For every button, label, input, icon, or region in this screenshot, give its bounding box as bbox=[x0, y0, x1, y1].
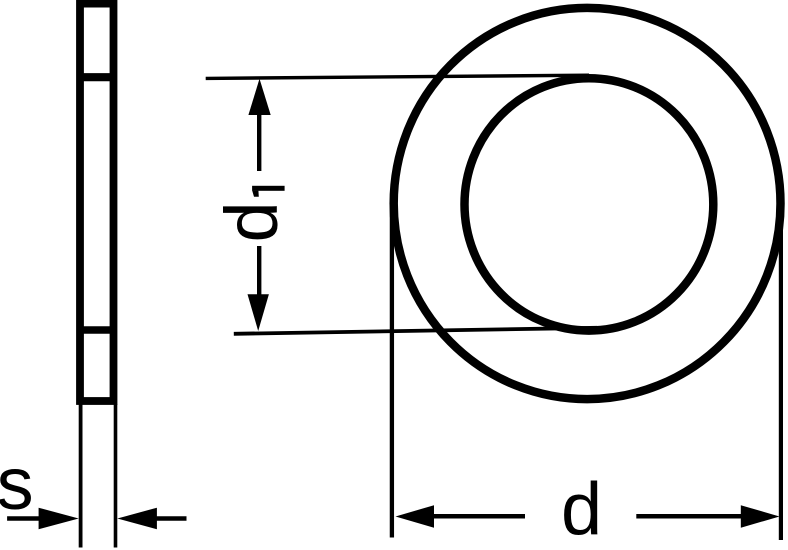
washer side view outline bbox=[80, 4, 114, 401]
d extension line right bbox=[779, 204, 783, 540]
s extension line left bbox=[79, 404, 83, 548]
svg-text:s: s bbox=[0, 442, 34, 525]
s dimension arrow left bbox=[7, 508, 79, 530]
washer inner circle bbox=[465, 78, 714, 330]
side view upper hole edge line bbox=[78, 73, 116, 81]
d dimension arrow right bbox=[636, 505, 779, 528]
d1 dimension arrow up bbox=[248, 79, 270, 171]
d extension line left bbox=[390, 204, 394, 538]
side view lower hole edge line bbox=[78, 326, 116, 334]
d dimension arrow left bbox=[396, 505, 526, 528]
svg-text:d: d bbox=[561, 468, 602, 550]
d1 extension line bottom bbox=[234, 328, 597, 334]
svg-text:d: d bbox=[210, 201, 293, 242]
d1 extension line top bbox=[206, 75, 589, 78]
s extension line right bbox=[114, 404, 118, 548]
s dimension arrow right bbox=[117, 508, 186, 530]
d1 dimension arrow down bbox=[248, 246, 269, 331]
label d1 bbox=[210, 186, 293, 243]
washer outer circle bbox=[394, 8, 781, 399]
